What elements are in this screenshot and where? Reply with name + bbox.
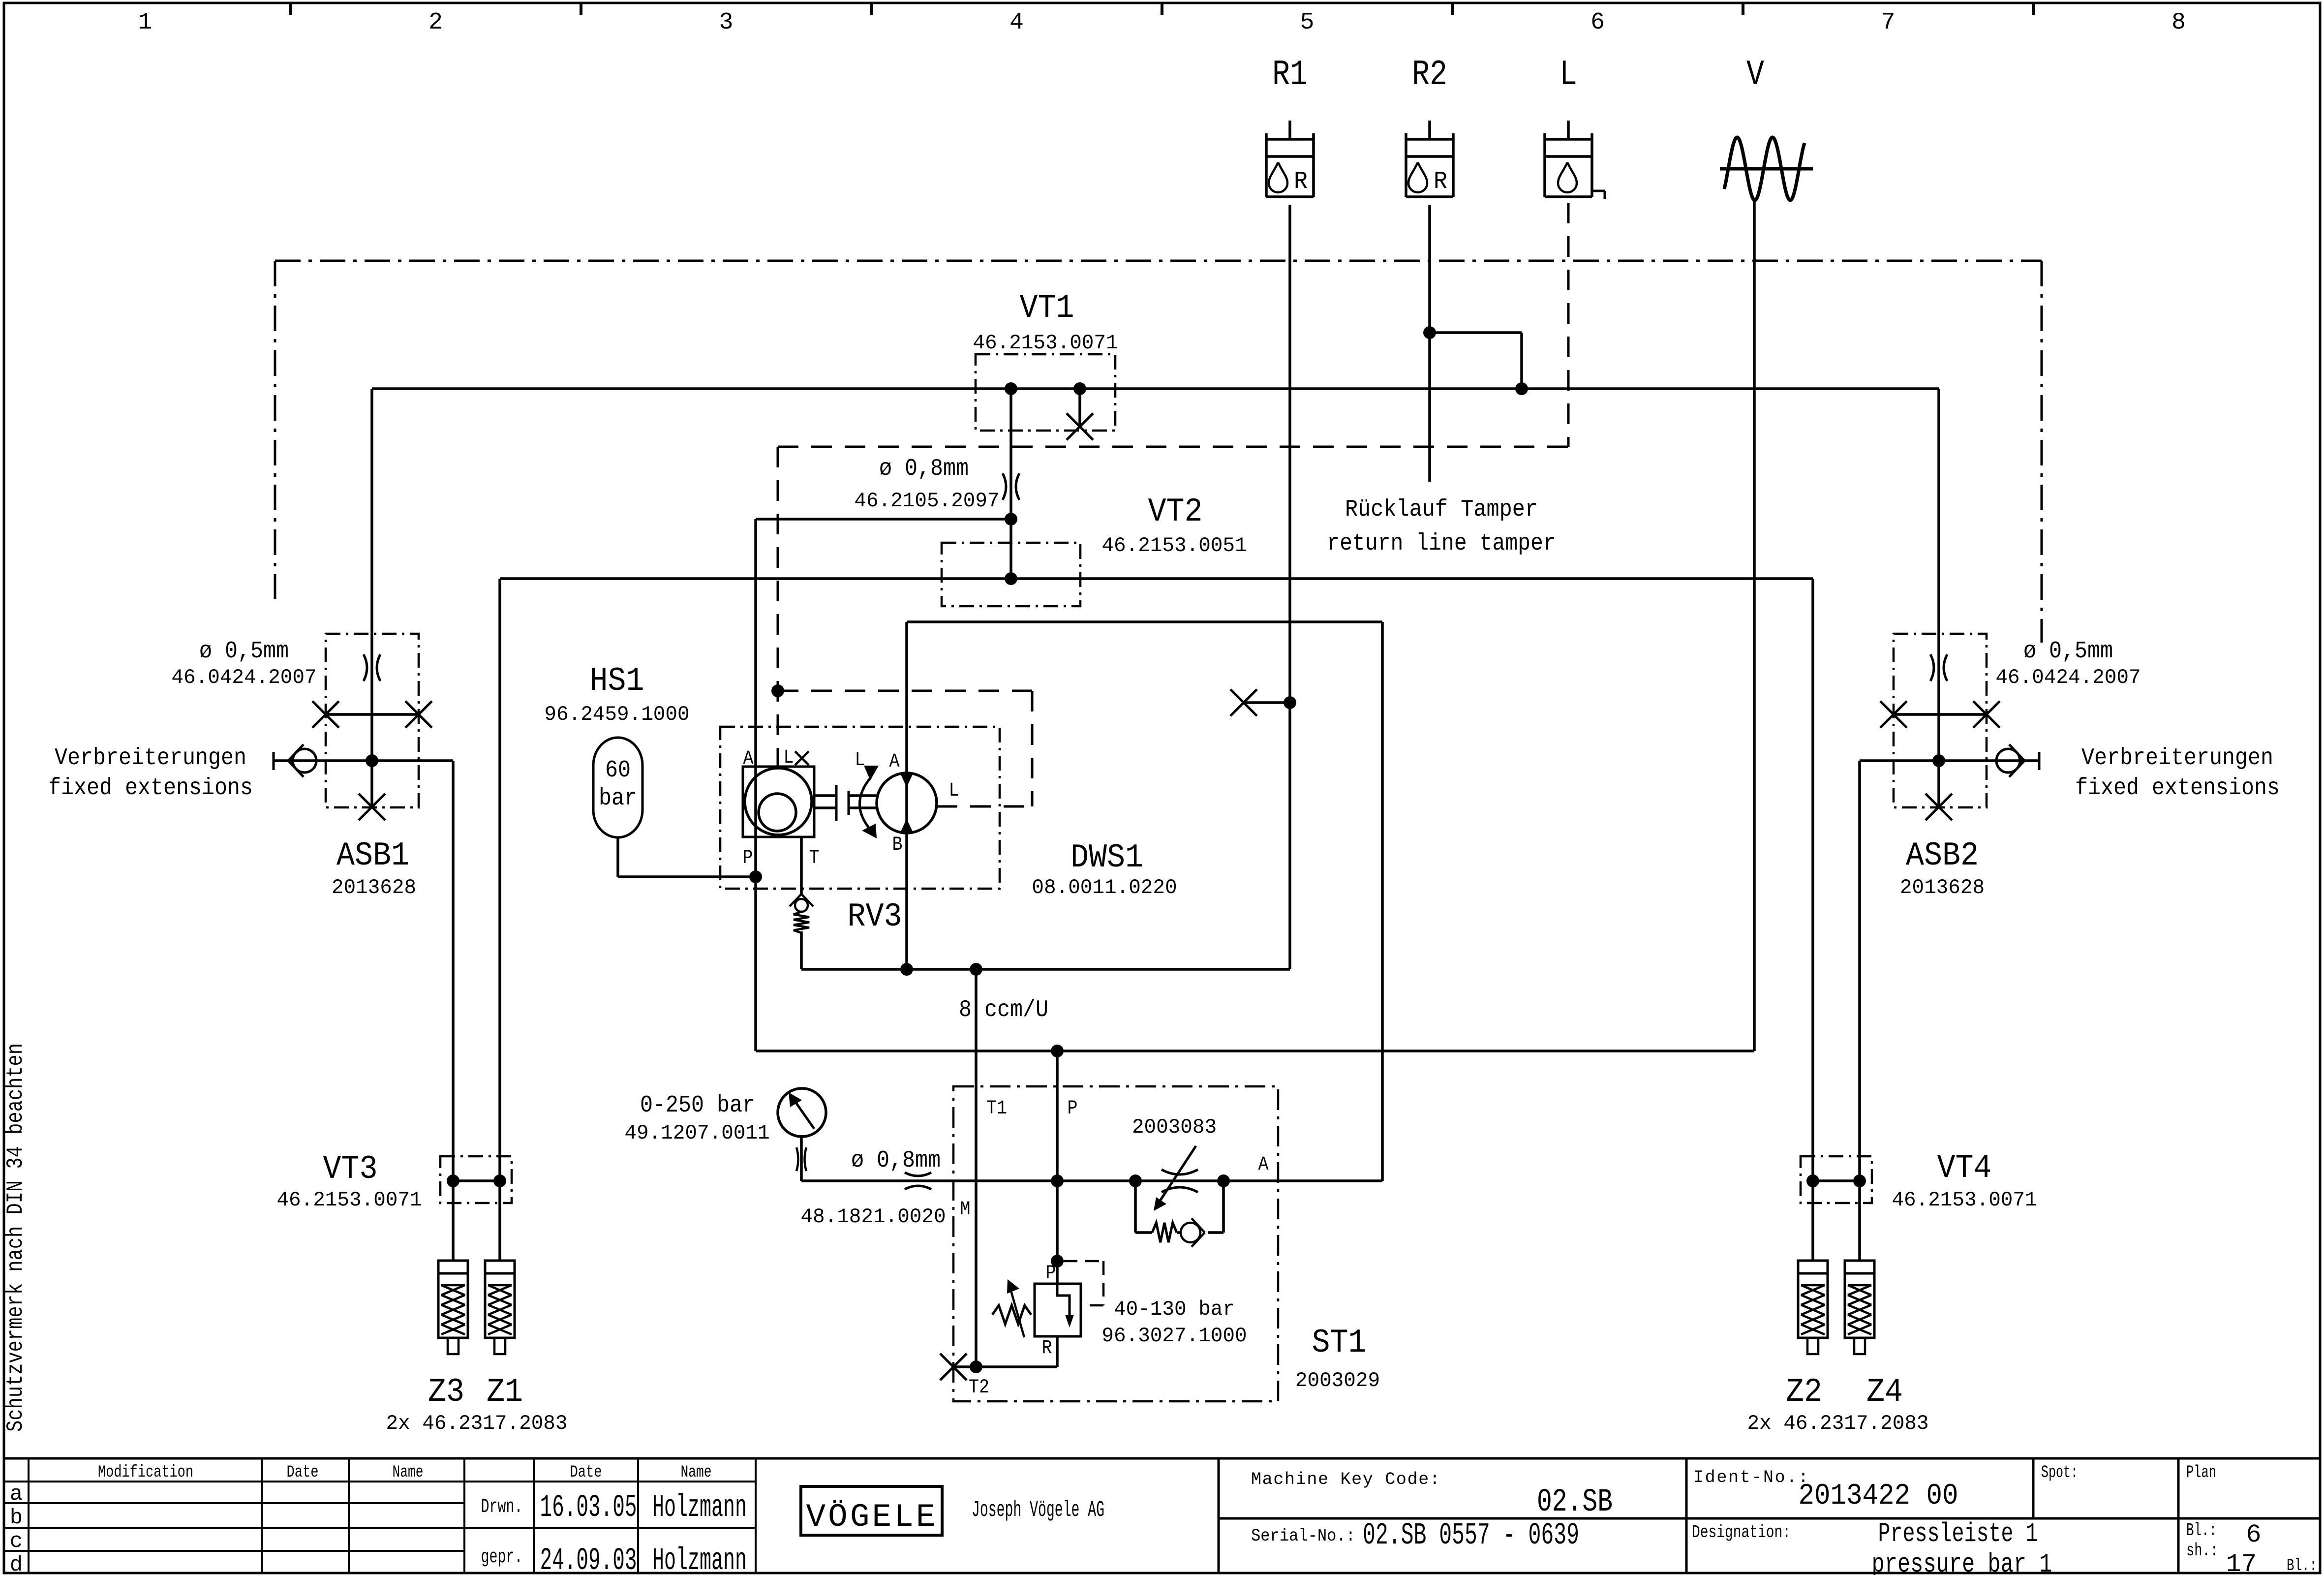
node tankline-T1 [970,963,982,976]
column numbers 1-8 [138,9,2186,36]
wire ST1 P drop x=2149 [1056,1051,1059,1284]
svg-text:DWS1: DWS1 [1070,839,1143,877]
node T2 [970,1360,982,1373]
wire y=1055 (VT2 to P-line) [756,518,1011,521]
wire A-path top y=1264 [907,620,1382,623]
ASB2 X bottom [1926,794,1952,820]
wire Z2 drop x=3685 [1811,579,1814,1261]
svg-text:46.2105.2097: 46.2105.2097 [854,489,999,513]
wire ASB1 drop x=756 [370,389,373,807]
valve block box [720,727,1000,889]
svg-text:8 ccm/U: 8 ccm/U [959,997,1048,1023]
leak line left drop (dashed) [777,447,779,767]
pump plugged L port X [795,751,809,765]
svg-text:2013628: 2013628 [1900,876,1985,899]
node tankline-motor [900,963,913,976]
svg-text:Name: Name [393,1463,424,1482]
pump circle small [759,794,796,831]
svg-text:R: R [1434,168,1447,196]
svg-text:Bl.:: Bl.: [2287,1557,2317,1575]
wire VT4 interconnect [1813,1179,1860,1182]
title block lines [4,1458,2320,1573]
svg-text:ø 0,5mm: ø 0,5mm [2023,638,2113,665]
svg-text:sh.:: sh.: [2186,1541,2218,1561]
wire ASB1 port line y=1546 [274,759,453,762]
svg-text:Verbreiterungen: Verbreiterungen [2081,745,2273,772]
svg-text:96.3027.1000: 96.3027.1000 [1101,1324,1247,1348]
ST1 T2 X [940,1354,967,1380]
RV3 spring [794,912,809,933]
node VT1-right [1073,382,1086,395]
svg-text:02.SB: 02.SB [1537,1483,1613,1520]
svg-text:P: P [743,847,753,869]
rotation arrows [859,777,871,828]
svg-text:Z4: Z4 [1866,1373,1903,1411]
wire R2 column [1428,205,1431,482]
svg-text:return line tamper: return line tamper [1327,530,1556,557]
svg-text:Z3: Z3 [428,1373,464,1411]
flow valve arrow [1157,1146,1196,1206]
svg-text:HS1: HS1 [590,662,644,700]
relief valve internal arrow [1057,1284,1070,1317]
svg-text:VT3: VT3 [323,1150,378,1188]
wire HS1 to P-line [618,875,756,878]
node VT4-a [1806,1174,1819,1187]
dash-dot border top [275,260,2042,262]
svg-text:16.03.05: 16.03.05 [540,1490,637,1526]
svg-text:pressure bar 1: pressure bar 1 [1872,1549,2052,1575]
svg-text:6: 6 [1590,9,1605,36]
svg-text:Z1: Z1 [487,1373,523,1411]
svg-text:P: P [1046,1263,1056,1285]
svg-text:60: 60 [605,757,631,784]
svg-text:48.1821.0020: 48.1821.0020 [800,1205,946,1229]
svg-text:3: 3 [719,9,734,36]
svg-text:8: 8 [2171,9,2186,36]
svg-text:2x 46.2317.2083: 2x 46.2317.2083 [1747,1412,1929,1435]
node VT3-a [447,1174,459,1187]
ASB2 box [1894,634,1987,807]
node ASB1 [366,754,378,767]
node VT4-b [1853,1174,1866,1187]
tank L drain stub [1591,191,1605,199]
wire HS1 vertical [616,837,619,877]
wire ASB2 drop x=3941 [1937,389,1940,807]
wire P-line x=1536 [754,519,757,1051]
accumulator HS1 body [593,738,642,837]
orifice 48.1821.0020 [905,1173,931,1176]
node VT3-b [493,1174,506,1187]
cylinder Z4 [1845,1261,1874,1354]
VOGELE logo box [801,1486,942,1535]
svg-text:Holzmann: Holzmann [652,1490,747,1526]
relief valve spring [992,1305,1031,1324]
svg-text:46.2153.0071: 46.2153.0071 [1892,1188,2037,1212]
leak branch horizontal (dashed) [778,690,1032,692]
bypass bottom wire [1135,1231,1223,1234]
wire ASB2 port line y=1546 [1860,759,2039,762]
relief valve adjust arrow [1010,1289,1024,1337]
ASB1 X left [312,701,339,728]
ASB1 port bar [273,752,275,770]
svg-text:VT1: VT1 [1020,289,1074,327]
pump square [743,767,814,837]
node A-line-P [1051,1174,1064,1187]
svg-text:Pressleiste 1: Pressleiste 1 [1878,1518,2038,1549]
tank R1 [1266,121,1314,197]
svg-text:46.0424.2007: 46.0424.2007 [1995,666,2141,689]
svg-text:02.SB 0557 - 0639: 02.SB 0557 - 0639 [1363,1518,1579,1553]
svg-text:T1: T1 [986,1098,1007,1120]
svg-text:T: T [809,847,820,869]
gauge needle [795,1101,814,1129]
svg-text:R2: R2 [1412,55,1447,95]
svg-text:0-250 bar: 0-250 bar [640,1092,755,1119]
valve VT1 plugged port X [1067,413,1093,440]
R1 plugged port X [1230,689,1257,716]
svg-text:Date: Date [570,1463,602,1482]
node relief-P [1051,1255,1064,1267]
wire A-line y=2400 [801,1179,1382,1182]
svg-text:Plan: Plan [2186,1463,2216,1482]
svg-text:ø 0,8mm: ø 0,8mm [851,1147,941,1174]
ST1 box [953,1086,1278,1401]
svg-text:Verbreiterungen: Verbreiterungen [55,745,246,772]
ASB2 closed line [1894,713,1987,716]
valve VT1 box [976,354,1115,431]
svg-text:7: 7 [1881,9,1896,36]
svg-text:Machine Key Code:: Machine Key Code: [1251,1470,1440,1489]
ASB1 closed line [326,713,419,716]
ASB1 orifice [364,654,367,681]
node P-manifold [1051,1045,1064,1057]
node R1-X [1284,696,1296,709]
wire P manifold y=2136 [756,1050,1754,1052]
svg-text:46.0424.2007: 46.0424.2007 [171,666,316,689]
svg-text:B: B [892,834,903,856]
svg-text:49.1207.0011: 49.1207.0011 [624,1121,769,1145]
node bypass-left [1129,1174,1142,1187]
flow valve 2003083 orifice [1162,1170,1198,1174]
svg-text:Schutzvermerk nach DIN 34 beac: Schutzvermerk nach DIN 34 beachten [3,1043,29,1432]
wire T1 drop x=1984 [975,969,978,1367]
svg-text:M: M [960,1199,971,1221]
wire R1 X-stub [1244,701,1290,704]
svg-text:L: L [949,780,959,802]
svg-text:d: d [10,1553,23,1575]
ASB1 X bottom [359,794,385,820]
svg-text:ø 0,5mm: ø 0,5mm [199,638,289,665]
ASB1 check valve [288,744,316,777]
svg-text:R: R [1294,168,1308,196]
svg-text:46.2153.0071: 46.2153.0071 [276,1188,422,1212]
svg-text:VT2: VT2 [1148,493,1203,531]
svg-text:Spot:: Spot: [2041,1463,2078,1482]
leak junction node [771,684,784,697]
tank L [1545,121,1592,197]
svg-text:L: L [1560,55,1577,95]
svg-text:24.09.03: 24.09.03 [540,1544,637,1575]
svg-text:46.2153.0071: 46.2153.0071 [973,331,1118,355]
valve VT3 box [440,1156,512,1203]
bypass spring [1152,1223,1177,1242]
svg-text:ASB2: ASB2 [1906,837,1979,875]
valve VT4 box [1801,1156,1872,1203]
svg-text:Serial-No.:: Serial-No.: [1251,1526,1355,1546]
leak motor-L line (dashed) [937,805,1032,808]
motor arrow A [900,773,913,787]
ASB2 X left [1880,701,1907,728]
svg-text:Drwn.: Drwn. [481,1496,523,1518]
vibrator V symbol [1720,137,1813,200]
wire RV3 to tank line [800,931,803,969]
wire motor column x=1843 [905,622,908,969]
svg-text:RV3: RV3 [848,898,902,936]
svg-text:A: A [1258,1154,1269,1176]
svg-text:Z2: Z2 [1786,1373,1822,1411]
wire VT3 interconnect [453,1179,500,1182]
pump shaft [814,785,877,821]
top border ticks [291,3,2034,15]
svg-text:17: 17 [2226,1550,2257,1575]
wire y=1176 (VT2 long line) [500,577,1813,580]
svg-text:b: b [10,1506,23,1530]
svg-text:bar: bar [599,785,637,812]
cylinder Z1 [485,1261,515,1354]
svg-text:fixed extensions: fixed extensions [48,775,253,802]
node VT2-throttle [1005,513,1017,525]
motor circle [877,773,937,833]
wire V column [1753,200,1756,1051]
svg-text:Joseph Vögele AG: Joseph Vögele AG [972,1498,1104,1523]
svg-text:ST1: ST1 [1312,1324,1367,1362]
svg-text:1: 1 [138,9,153,36]
ASB2 port bar [2038,752,2041,770]
svg-text:T2: T2 [969,1377,989,1399]
wire R1 column [1288,205,1291,969]
dash-dot border right [2041,261,2043,643]
svg-text:40-130 bar: 40-130 bar [1114,1297,1235,1321]
svg-text:08.0011.0220: 08.0011.0220 [1032,876,1177,899]
svg-text:R1: R1 [1272,55,1308,95]
svg-text:ASB1: ASB1 [336,837,409,875]
bypass left drop [1134,1181,1137,1233]
svg-text:gepr.: gepr. [481,1546,523,1569]
cylinder Z2 [1798,1261,1828,1354]
svg-text:Holzmann: Holzmann [652,1544,747,1575]
cylinder Z3 [438,1261,468,1354]
svg-text:Modification: Modification [98,1463,193,1482]
wire Z4 drop x=3780 [1858,761,1861,1261]
svg-text:2013628: 2013628 [332,876,416,899]
svg-text:Rücklauf Tamper: Rücklauf Tamper [1345,496,1538,523]
leak line top (dashed) [778,446,1568,448]
svg-text:Designation:: Designation: [1692,1522,1791,1543]
svg-text:V: V [1746,55,1764,95]
node HS1 [749,870,762,883]
node R2-drop [1515,382,1528,395]
RV3 ball [795,899,808,912]
ASB1 X right [405,701,432,728]
leak line L-tank drop (dashed) [1567,203,1570,447]
wire R2 branch horizontal [1430,331,1522,334]
leak branch drop (dashed) [1031,691,1034,806]
node VT1-left [1005,382,1017,395]
svg-text:ø 0,8mm: ø 0,8mm [879,456,969,482]
svg-text:fixed extensions: fixed extensions [2075,775,2280,802]
svg-text:2003029: 2003029 [1295,1369,1380,1392]
motor arrow B [900,819,913,833]
wire R2 branch drop [1520,333,1523,389]
node bypass-right [1217,1174,1230,1187]
svg-text:Name: Name [681,1463,712,1482]
ASB2 orifice [1930,654,1934,681]
bypass check valve [1181,1218,1205,1247]
svg-text:2013422 00: 2013422 00 [1799,1480,1958,1513]
svg-text:6: 6 [2246,1520,2261,1549]
svg-text:A: A [889,751,900,773]
wire top manifold y=790 [372,387,1939,390]
svg-text:c: c [10,1529,23,1554]
svg-text:2003083: 2003083 [1132,1115,1217,1139]
wire T2 return y=2778 [953,1365,1057,1368]
valve VT2 box [942,543,1080,606]
svg-text:5: 5 [1300,9,1315,36]
node R2-branch [1423,326,1436,339]
bypass right drop [1222,1181,1225,1233]
ASB1 box [326,634,419,807]
wire relief R drop [1056,1336,1059,1367]
wire Z1 drop x=1016 [498,579,501,1261]
svg-text:R: R [1042,1337,1052,1359]
svg-text:VT4: VT4 [1937,1149,1992,1187]
RV3 seat chevron [790,894,813,906]
tank R2 [1406,121,1453,197]
wire pump T drop x=1629 [800,837,803,894]
ASB2 X right [1973,701,2000,728]
throttle VT1 orifice [1003,473,1006,500]
dash-dot border left [274,261,276,599]
relief valve square [1035,1284,1081,1336]
svg-text:2: 2 [428,9,443,36]
node VT2-line [1005,572,1017,585]
svg-text:a: a [10,1482,23,1507]
svg-text:4: 4 [1009,9,1024,36]
wire VT1 plugged stub x=2195 [1078,389,1081,427]
wire A-path right x=2810 [1381,622,1384,1181]
wire Z3 drop x=921 [452,761,455,1261]
gauge circle [778,1088,826,1137]
svg-text:96.2459.1000: 96.2459.1000 [544,703,689,726]
wire tank return y=1970 [801,968,1290,971]
pump circle large [745,768,812,835]
svg-text:46.2153.0051: 46.2153.0051 [1101,534,1247,557]
svg-text:Date: Date [287,1463,319,1482]
svg-text:2x 46.2317.2083: 2x 46.2317.2083 [386,1412,568,1435]
ASB2 check valve [1996,744,2024,777]
gauge orifice [796,1147,798,1171]
wire VT1 branch x=2055 [1009,389,1012,579]
wire gauge drop [800,1137,803,1181]
relief valve pilot dashed [1064,1261,1103,1305]
svg-text:Bl.:: Bl.: [2186,1520,2217,1541]
svg-text:L: L [855,749,865,772]
svg-text:P: P [1068,1098,1078,1120]
node ASB2 [1932,754,1945,767]
